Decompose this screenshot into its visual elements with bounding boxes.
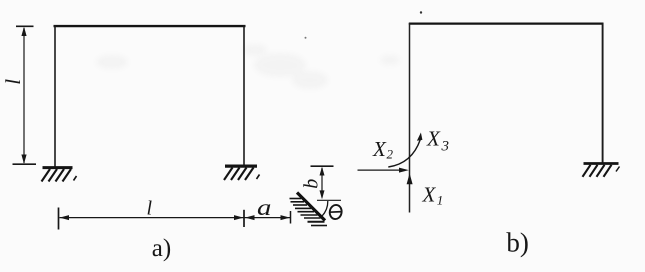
svg-text:b: b [301,179,323,189]
svg-text:a): a) [152,235,171,262]
label X1 [422,183,444,208]
inclined support hatching [290,199,328,226]
frame b top beam [409,23,604,25]
bottom dimension line l [59,208,291,230]
frame b fixed support [583,164,620,177]
label a (bottom dimension) [257,195,271,221]
theta reference line [317,199,341,201]
frame a left fixed support [42,168,77,182]
svg-text:X: X [426,127,441,151]
moment X3 curved arrow [388,133,422,168]
frame a top beam [54,25,246,27]
frame a right column [243,25,245,167]
svg-text:X: X [372,137,387,161]
frame a left column [54,25,56,168]
svg-text:X: X [422,183,437,207]
caption a) [152,235,171,262]
force X1 arrow (up along column) [407,173,413,184]
frame a right fixed support [224,166,260,180]
svg-text:2: 2 [387,147,394,162]
svg-text:b): b) [506,228,529,258]
label theta [329,204,343,220]
label l (bottom dimension) [147,198,153,220]
stray scan dot [305,11,423,38]
inclined support detail: bearing surface [297,193,325,221]
label l (vertical dimension, rotated) [1,79,25,85]
frame b left column (cut member) [409,23,411,213]
dimension b [311,166,334,199]
vertical dimension line l [13,26,37,164]
svg-text:l: l [147,198,153,220]
svg-text:3: 3 [441,139,450,155]
frame b right column [602,23,604,163]
theta angle arc [322,201,328,216]
label X3 [426,127,449,155]
label b (rotated) [301,179,323,189]
svg-text:a: a [257,195,271,221]
force X2 arrow [358,168,409,173]
faint scan smudges [96,44,400,89]
svg-text:1: 1 [437,193,444,208]
caption b) [506,228,529,258]
svg-text:l: l [1,79,25,85]
label X2 [372,137,394,162]
